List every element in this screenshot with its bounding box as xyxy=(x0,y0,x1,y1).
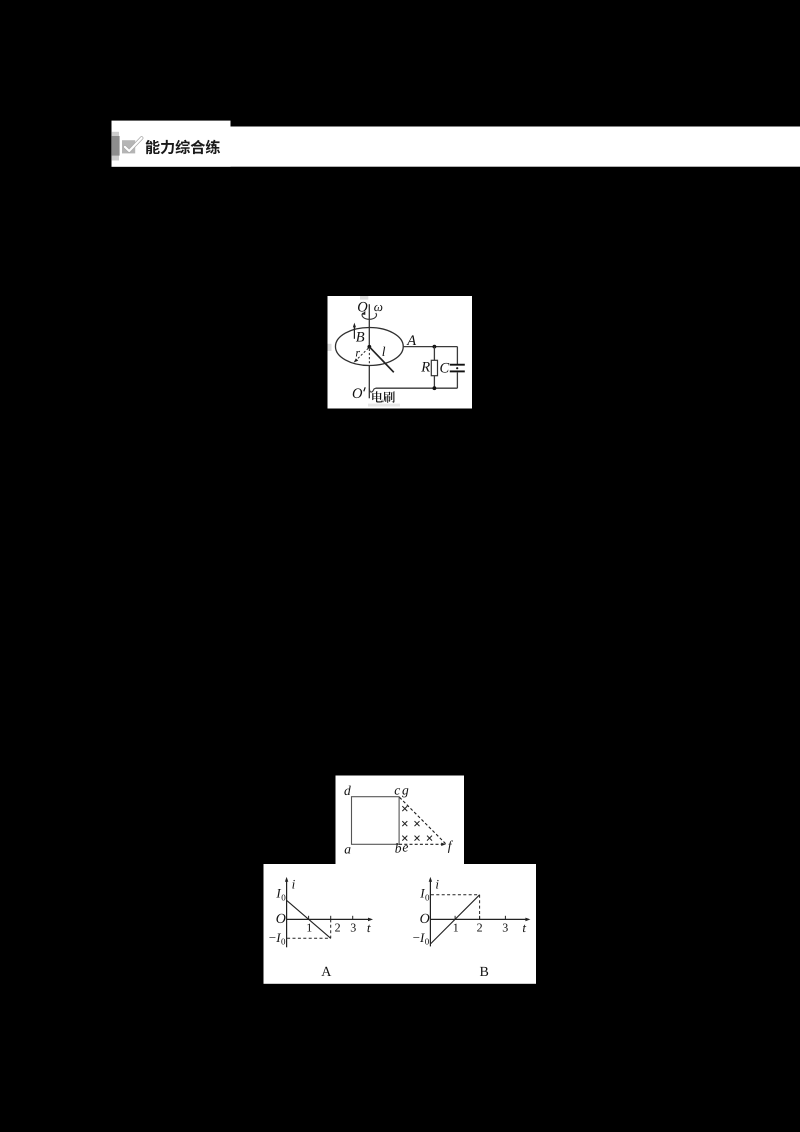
graph A: dashed drop at t=2 xyxy=(330,919,332,938)
field cross row 2 xyxy=(402,821,407,826)
rotation direction arc arrow xyxy=(362,313,376,319)
header icon: checkbox with checkmark xyxy=(122,140,135,153)
junction node (top) xyxy=(433,345,437,349)
svg-text:t: t xyxy=(522,920,526,935)
field cross row 1 xyxy=(402,806,407,811)
svg-text:O: O xyxy=(352,386,363,402)
svg-text:e: e xyxy=(402,840,408,855)
dashed hypotenuse g-f xyxy=(400,797,446,844)
svg-text:b: b xyxy=(395,841,402,856)
graph A: tick 3 xyxy=(352,916,354,920)
brush label 电刷 xyxy=(372,391,383,402)
radius r dashed arrow xyxy=(356,348,368,360)
header icon: gray tab bars xyxy=(112,132,119,161)
current-time graphs white panel xyxy=(264,864,537,984)
resistor R branch: top lead xyxy=(433,347,435,361)
svg-text:3: 3 xyxy=(350,920,356,934)
graph A: current line (falling) xyxy=(287,900,331,938)
svg-text:l: l xyxy=(382,344,386,359)
capacitor C bottom lead xyxy=(456,372,458,388)
svg-text:g: g xyxy=(402,782,409,797)
svg-text:A: A xyxy=(321,965,332,980)
svg-text:−: − xyxy=(413,930,420,945)
top wire from disc rim A to circuit xyxy=(403,346,457,348)
svg-text:i: i xyxy=(435,876,439,891)
graph B: current line (rising) xyxy=(431,895,480,944)
svg-text:r: r xyxy=(355,345,360,359)
svg-text:0: 0 xyxy=(425,937,430,947)
graph B: x axis t xyxy=(430,918,528,920)
dashed base e-f with arrow xyxy=(399,843,443,845)
square coil abcd xyxy=(352,797,400,845)
header band (stepped white strip) xyxy=(112,121,231,167)
graph A: tick 2 xyxy=(330,916,332,920)
graph B: tick 1 xyxy=(454,916,456,920)
graph B: dashed drop at t=2 xyxy=(479,895,481,920)
svg-text:1: 1 xyxy=(453,920,459,934)
resistor R body xyxy=(431,360,437,375)
disc centre pivot dot xyxy=(367,345,371,349)
graph B: y axis i xyxy=(429,879,431,947)
graph B: dashed I0 level xyxy=(431,894,480,896)
resistor R bottom lead xyxy=(433,376,435,389)
svg-text:0: 0 xyxy=(281,893,286,903)
svg-text:R: R xyxy=(420,359,430,375)
magnetic field B arrow xyxy=(353,326,355,339)
svg-text:0: 0 xyxy=(425,893,430,903)
svg-text:1: 1 xyxy=(306,920,312,934)
svg-text:C: C xyxy=(440,360,450,376)
rotation axis wire OO' xyxy=(368,304,370,347)
header title 能力综合练 xyxy=(146,140,160,154)
svg-text:B: B xyxy=(480,965,489,980)
svg-text:i: i xyxy=(292,876,296,891)
capacitor C top plate xyxy=(450,364,465,366)
svg-text:0: 0 xyxy=(281,937,286,947)
svg-text:2: 2 xyxy=(477,920,483,934)
coil-and-field white panel xyxy=(336,776,465,865)
graph B: tick 2 xyxy=(479,916,481,920)
svg-text:O: O xyxy=(420,912,430,927)
graph A: tick 1 xyxy=(308,916,310,920)
svg-text:2: 2 xyxy=(335,920,341,934)
svg-text:B: B xyxy=(356,329,365,345)
svg-text:−: − xyxy=(269,930,276,945)
graph A: dashed -I0 level xyxy=(287,937,331,939)
circuit diagram white panel xyxy=(328,296,473,409)
field cross row 3 xyxy=(402,836,407,841)
junction node (bottom) xyxy=(433,386,437,390)
capacitor C branch: top lead xyxy=(456,347,458,365)
conducting rod l xyxy=(369,347,393,373)
graph B: tick 3 xyxy=(504,916,506,920)
svg-text:d: d xyxy=(344,783,351,798)
svg-text:c: c xyxy=(394,782,400,797)
rotating disc (ellipse) xyxy=(335,328,403,366)
svg-text:O: O xyxy=(276,912,286,927)
svg-text:a: a xyxy=(344,842,351,857)
svg-text:ω: ω xyxy=(374,299,383,314)
graph A: y axis i xyxy=(286,879,288,947)
svg-text:3: 3 xyxy=(502,920,508,934)
brush contact squiggle at O' xyxy=(369,388,375,392)
graph A: x axis t xyxy=(287,918,371,920)
capacitor C bottom plate xyxy=(450,370,465,372)
dashed vertical reference line below pivot xyxy=(368,349,370,365)
bottom return wire xyxy=(376,387,458,389)
svg-text:t: t xyxy=(367,920,371,935)
